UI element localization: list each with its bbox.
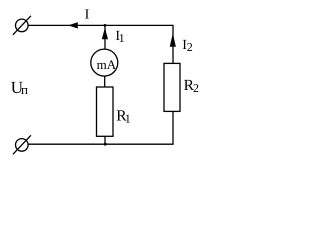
- svg-text:1: 1: [125, 111, 131, 125]
- svg-text:I: I: [85, 8, 90, 23]
- svg-text:mA: mA: [97, 57, 117, 72]
- svg-text:2: 2: [193, 81, 199, 95]
- svg-text:2: 2: [187, 40, 193, 54]
- svg-text:п: п: [21, 82, 28, 97]
- svg-text:1: 1: [119, 31, 125, 45]
